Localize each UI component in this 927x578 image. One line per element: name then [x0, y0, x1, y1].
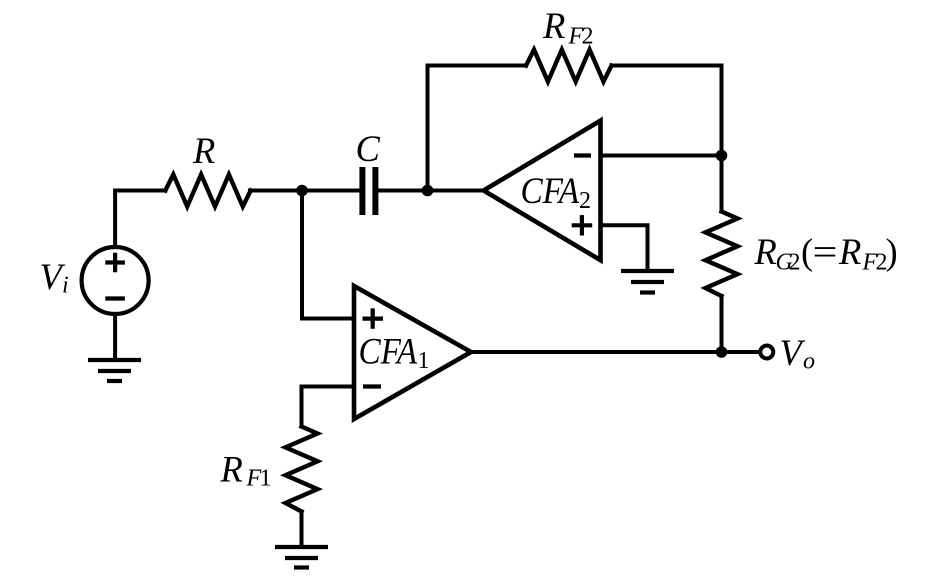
- node A: [296, 185, 308, 197]
- op-amp U1 CFA2: [484, 121, 601, 261]
- node B: [422, 185, 434, 197]
- wire: [428, 66, 527, 191]
- svg-text:2: 2: [579, 188, 591, 214]
- svg-text:C: C: [356, 128, 381, 169]
- svg-text:CFA: CFA: [359, 331, 418, 372]
- label CFA1: [359, 331, 430, 375]
- wire: [720, 296, 724, 352]
- wire: [113, 314, 117, 360]
- wire: [250, 189, 359, 193]
- node C: [716, 150, 728, 162]
- svg-text:R: R: [838, 231, 861, 272]
- svg-text:R: R: [192, 130, 215, 171]
- svg-text:=: =: [813, 231, 838, 272]
- wire: [115, 191, 165, 248]
- label RG2 (=RF2): [754, 231, 898, 276]
- label Vi: [40, 256, 69, 299]
- ground: [275, 547, 328, 568]
- wire: [302, 191, 354, 319]
- svg-text:2: 2: [789, 250, 801, 276]
- resistor RF2: [526, 50, 612, 82]
- node D: [716, 346, 728, 358]
- resistor RG2: [706, 212, 738, 297]
- op-amp U2 CFA1: [354, 286, 471, 419]
- label Vo: [780, 332, 816, 375]
- terminal Vo: [760, 346, 773, 359]
- svg-text:R: R: [754, 231, 777, 272]
- label RF1: [220, 449, 272, 492]
- wire: [378, 189, 483, 193]
- ground: [621, 271, 674, 293]
- capacitor C: [362, 167, 375, 215]
- wire: [722, 350, 759, 354]
- wire: [302, 387, 355, 427]
- wire: [612, 66, 722, 156]
- wire: [601, 154, 722, 158]
- wire: [601, 225, 648, 269]
- resistor RF1: [286, 427, 318, 512]
- svg-text:): ): [886, 231, 898, 272]
- svg-text:2: 2: [582, 24, 594, 50]
- svg-text:o: o: [803, 349, 815, 375]
- svg-text:R: R: [542, 5, 565, 46]
- svg-text:1: 1: [418, 348, 430, 374]
- label CFA2: [521, 170, 592, 214]
- svg-text:V: V: [780, 332, 806, 373]
- ground: [88, 360, 141, 381]
- label RF2: [542, 5, 594, 50]
- wire: [471, 350, 722, 354]
- wire: [720, 156, 724, 212]
- svg-text:i: i: [62, 273, 69, 299]
- voltage source Vi: [82, 247, 149, 314]
- svg-text:1: 1: [260, 466, 272, 492]
- svg-text:(: (: [801, 231, 813, 272]
- wire: [300, 512, 304, 548]
- svg-text:CFA: CFA: [521, 170, 580, 211]
- svg-text:R: R: [220, 449, 243, 490]
- resistor R: [165, 175, 250, 207]
